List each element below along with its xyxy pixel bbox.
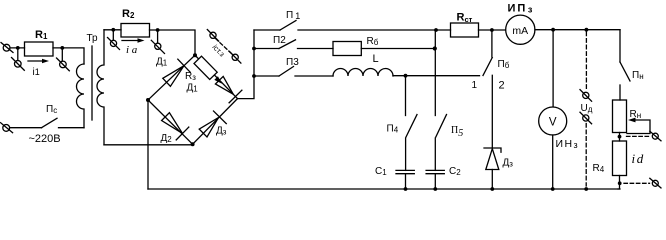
node C1 branch top xyxy=(404,74,408,78)
wire secondary top to R2 xyxy=(104,29,121,31)
dashed measurement line ist.z xyxy=(216,39,233,55)
inductor L xyxy=(333,69,393,76)
bridge edge top-left xyxy=(148,55,195,100)
svg-text:П1: П1 xyxy=(286,10,300,21)
zener diode Dz triangle xyxy=(486,149,499,170)
svg-text:Д1: Д1 xyxy=(187,83,199,94)
wire C1 to bus xyxy=(405,174,407,189)
switch Pc wire left xyxy=(10,127,42,129)
capacitor C1 xyxy=(396,170,414,173)
svg-text:Тр: Тр xyxy=(87,33,99,44)
terminal tap right of R2 xyxy=(151,30,164,54)
bottom bus wire xyxy=(148,188,620,190)
rheostat wiper arrow of Rn xyxy=(627,118,650,134)
svg-text:Rб: Rб xyxy=(367,36,379,47)
svg-text:Rн: Rн xyxy=(630,109,642,120)
milliammeter IPz xyxy=(506,15,535,44)
bridge edge bottom-right xyxy=(193,99,238,145)
svg-text:~220В: ~220В xyxy=(29,133,61,145)
node Ud on bus xyxy=(584,187,588,191)
node between Rn and R4 xyxy=(618,135,622,139)
svg-text:Д2: Д2 xyxy=(161,133,173,144)
wire P2 to Rb xyxy=(298,48,334,50)
svg-text:Дз: Дз xyxy=(503,158,514,169)
wire V branch lower xyxy=(552,135,554,189)
node C2 on bus xyxy=(433,187,437,191)
wire P5 to C2 xyxy=(434,138,436,170)
node left of R1 xyxy=(16,46,20,50)
node Rb joins P5 branch xyxy=(433,46,437,50)
node Dz on bus xyxy=(490,187,494,191)
wire Pn to Rn xyxy=(619,85,621,100)
svg-text:Пн: Пн xyxy=(632,70,644,81)
diode D2 cathode bar xyxy=(176,127,189,140)
resistor R3 (tilted on top-right edge) xyxy=(194,56,217,79)
wire R2 to bridge top corner xyxy=(150,30,196,55)
switch Pc wire right to primary xyxy=(59,127,85,129)
wire P3 to L xyxy=(295,75,333,77)
svg-text:Пс: Пс xyxy=(46,104,57,115)
terminal X2 (input bottom-left) xyxy=(1,123,13,133)
transformer secondary winding xyxy=(97,30,104,145)
terminal at R4 bottom xyxy=(650,178,661,188)
wire R1 to transformer primary xyxy=(53,48,84,64)
dashed tap at R4 bottom xyxy=(624,182,650,184)
diode D2 (left-bottom edge) triangle xyxy=(162,113,183,134)
resistor R1 xyxy=(25,42,54,56)
node P3 on bus xyxy=(252,74,256,78)
node Ud branch xyxy=(585,28,589,32)
svg-text:ИНз: ИНз xyxy=(556,138,579,150)
current arrow i1 xyxy=(28,59,49,63)
capacitor C2 xyxy=(426,170,444,173)
node bridge left corner xyxy=(146,98,150,102)
wire Rb to C2 branch xyxy=(361,48,434,50)
svg-text:L: L xyxy=(373,53,379,65)
wire bridge right corner to switch bus xyxy=(238,30,255,99)
svg-text:mA: mA xyxy=(512,25,528,37)
switch Pn lever xyxy=(620,62,630,81)
switch P4 lever xyxy=(406,115,417,138)
terminal (lower) of ist.z xyxy=(230,52,241,64)
svg-text:C2: C2 xyxy=(449,166,461,177)
terminal X1 (input top-left) xyxy=(1,43,13,53)
svg-text:ИПз: ИПз xyxy=(508,3,535,15)
current arrow ia xyxy=(122,38,145,42)
wire Dz to bus xyxy=(491,170,493,190)
svg-text:Rз: Rз xyxy=(185,71,196,82)
wire secondary bottom to bridge bottom corner xyxy=(104,144,193,146)
resistor R4 xyxy=(613,141,627,176)
resistor Rn xyxy=(613,100,627,133)
dashed wire Ud lower xyxy=(585,124,587,187)
svg-text:П2: П2 xyxy=(273,35,286,46)
node P6 branch on rail xyxy=(490,28,494,32)
svg-text:Д1: Д1 xyxy=(156,57,168,68)
wire Rn to R4 xyxy=(619,133,621,142)
terminal Ud upper xyxy=(580,90,592,102)
wire L to P6 contact 1 xyxy=(393,75,480,77)
svg-text:2: 2 xyxy=(499,80,505,92)
node bridge bottom corner xyxy=(191,142,195,146)
svg-text:Дз: Дз xyxy=(216,126,227,137)
resistor Rst xyxy=(451,23,479,37)
switch P1 wire xyxy=(254,29,280,31)
node bridge top corner xyxy=(193,53,197,57)
svg-text:1: 1 xyxy=(472,80,478,91)
capacitor branch P4 wire upper xyxy=(405,76,407,116)
top rail P1 to Rst xyxy=(298,29,451,31)
svg-text:id: id xyxy=(632,151,645,166)
wire P5 branch upper xyxy=(434,30,436,116)
transformer primary winding xyxy=(77,64,84,128)
terminal tap left of R2 xyxy=(108,30,120,50)
node V on bus xyxy=(551,187,555,191)
svg-text:i1: i1 xyxy=(33,67,40,78)
diode D1 (top-left edge) triangle xyxy=(163,66,184,87)
wire P4 to C1 xyxy=(405,138,407,170)
node V branch xyxy=(551,28,555,32)
wire C2 to bus xyxy=(434,174,436,189)
dashed tap at Rn/R4 node xyxy=(627,135,650,137)
switch P6 wire lower xyxy=(491,75,493,148)
terminal (upper) of ist.z xyxy=(207,30,218,42)
zener diode Dz bar xyxy=(484,148,501,152)
terminal tap left of R1 xyxy=(12,48,25,70)
svg-text:V: V xyxy=(549,117,557,129)
diode D4 cathode bar xyxy=(229,90,242,103)
bridge edge left-bottom xyxy=(148,100,193,144)
diode D3 (bottom-right edge) triangle xyxy=(199,118,218,137)
switch P5 lever xyxy=(436,115,447,138)
node left of R2 xyxy=(111,28,115,32)
diode D4 (top-right edge, under R3) triangle xyxy=(215,76,233,94)
diode D1 cathode bar xyxy=(178,59,190,72)
svg-text:П3: П3 xyxy=(286,57,299,68)
terminal at Rn/R4 node xyxy=(650,131,661,141)
wire R4 to bus xyxy=(618,176,620,190)
rail mA to right corner xyxy=(535,29,620,31)
switch P2 lever xyxy=(279,40,296,49)
node right of R1 xyxy=(60,46,64,50)
terminal Ud lower xyxy=(580,112,592,124)
svg-text:Пб: Пб xyxy=(498,59,510,70)
resistor Rb xyxy=(333,42,361,56)
wire Rst to mA xyxy=(479,29,506,31)
svg-text:i a: i a xyxy=(126,44,138,56)
wire bridge left corner down to bottom bus xyxy=(147,100,149,189)
switch P1 lever xyxy=(280,21,296,31)
switch P6 lever xyxy=(483,58,492,76)
svg-text:C1: C1 xyxy=(375,166,387,177)
svg-text:Uд: Uд xyxy=(581,103,593,114)
dashed wire Ud upper xyxy=(585,32,587,91)
transformer core xyxy=(91,46,93,120)
current arrow ist (filled, on edge) xyxy=(214,76,222,84)
voltmeter INz xyxy=(539,107,567,135)
wire input to R1 xyxy=(10,47,25,49)
switch P3 wire xyxy=(254,75,279,77)
resistor R2 xyxy=(121,24,150,38)
diode D3 cathode bar xyxy=(214,111,227,124)
bridge edge top-right xyxy=(195,55,238,98)
wire rail corner down to Pn xyxy=(619,30,621,62)
node P5 branch on rail xyxy=(434,28,438,32)
switch Pc lever xyxy=(42,118,58,127)
node R4 bottom tap xyxy=(618,181,622,185)
node right of R2 xyxy=(156,28,160,32)
node C1 on bus xyxy=(404,187,408,191)
switch P6 wire upper xyxy=(491,30,493,57)
wire V branch upper xyxy=(552,30,554,107)
svg-text:R4: R4 xyxy=(593,163,605,174)
svg-text:П4: П4 xyxy=(387,124,399,135)
switch P2 wire xyxy=(254,48,279,50)
switch P3 lever xyxy=(279,67,294,77)
node P2 on bus xyxy=(252,47,256,51)
terminal tap right of R1 xyxy=(57,48,70,71)
